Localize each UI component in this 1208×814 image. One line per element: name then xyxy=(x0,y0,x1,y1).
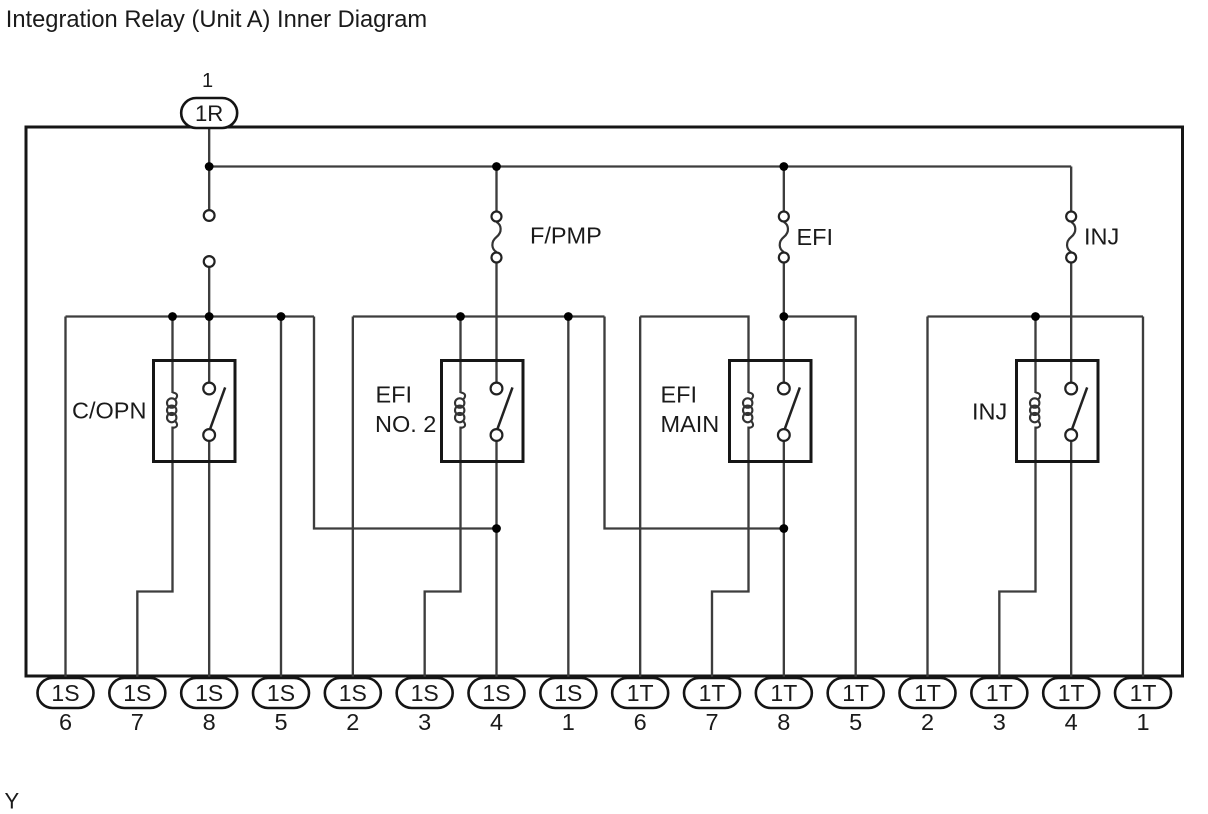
svg-text:INJ: INJ xyxy=(1084,224,1119,250)
svg-text:1S: 1S xyxy=(339,680,367,706)
svg-text:1T: 1T xyxy=(1058,680,1085,706)
svg-text:EFI: EFI xyxy=(797,224,834,250)
svg-text:2: 2 xyxy=(346,709,359,735)
svg-text:8: 8 xyxy=(203,709,216,735)
svg-text:1T: 1T xyxy=(914,680,941,706)
svg-text:1T: 1T xyxy=(699,680,726,706)
svg-text:Integration Relay (Unit A) Inn: Integration Relay (Unit A) Inner Diagram xyxy=(6,7,427,33)
svg-text:INJ: INJ xyxy=(972,399,1007,425)
svg-text:1: 1 xyxy=(202,70,213,92)
svg-text:1S: 1S xyxy=(411,680,439,706)
svg-text:2: 2 xyxy=(921,709,934,735)
svg-text:5: 5 xyxy=(274,709,287,735)
svg-text:4: 4 xyxy=(490,709,503,735)
svg-text:1S: 1S xyxy=(554,680,582,706)
svg-text:F/PMP: F/PMP xyxy=(530,223,602,249)
svg-text:1S: 1S xyxy=(195,680,223,706)
svg-text:1S: 1S xyxy=(51,680,79,706)
svg-text:1R: 1R xyxy=(195,101,223,126)
svg-text:C/OPN: C/OPN xyxy=(72,398,146,424)
svg-text:3: 3 xyxy=(993,709,1006,735)
svg-text:1T: 1T xyxy=(1130,680,1157,706)
svg-text:8: 8 xyxy=(777,709,790,735)
svg-text:4: 4 xyxy=(1065,709,1078,735)
svg-text:1T: 1T xyxy=(986,680,1013,706)
svg-text:MAIN: MAIN xyxy=(661,411,720,437)
svg-text:5: 5 xyxy=(849,709,862,735)
svg-text:EFI: EFI xyxy=(376,382,413,408)
svg-text:3: 3 xyxy=(418,709,431,735)
svg-text:6: 6 xyxy=(634,709,647,735)
svg-text:1T: 1T xyxy=(627,680,654,706)
svg-text:1: 1 xyxy=(1136,709,1149,735)
svg-text:6: 6 xyxy=(59,709,72,735)
svg-text:7: 7 xyxy=(705,709,718,735)
svg-text:7: 7 xyxy=(131,709,144,735)
svg-text:Y: Y xyxy=(5,789,20,814)
svg-text:NO. 2: NO. 2 xyxy=(375,411,436,437)
svg-text:1S: 1S xyxy=(123,680,151,706)
svg-text:1S: 1S xyxy=(267,680,295,706)
svg-text:1T: 1T xyxy=(770,680,797,706)
svg-text:1: 1 xyxy=(562,709,575,735)
svg-text:EFI: EFI xyxy=(661,382,698,408)
svg-text:1T: 1T xyxy=(842,680,869,706)
svg-text:1S: 1S xyxy=(482,680,510,706)
